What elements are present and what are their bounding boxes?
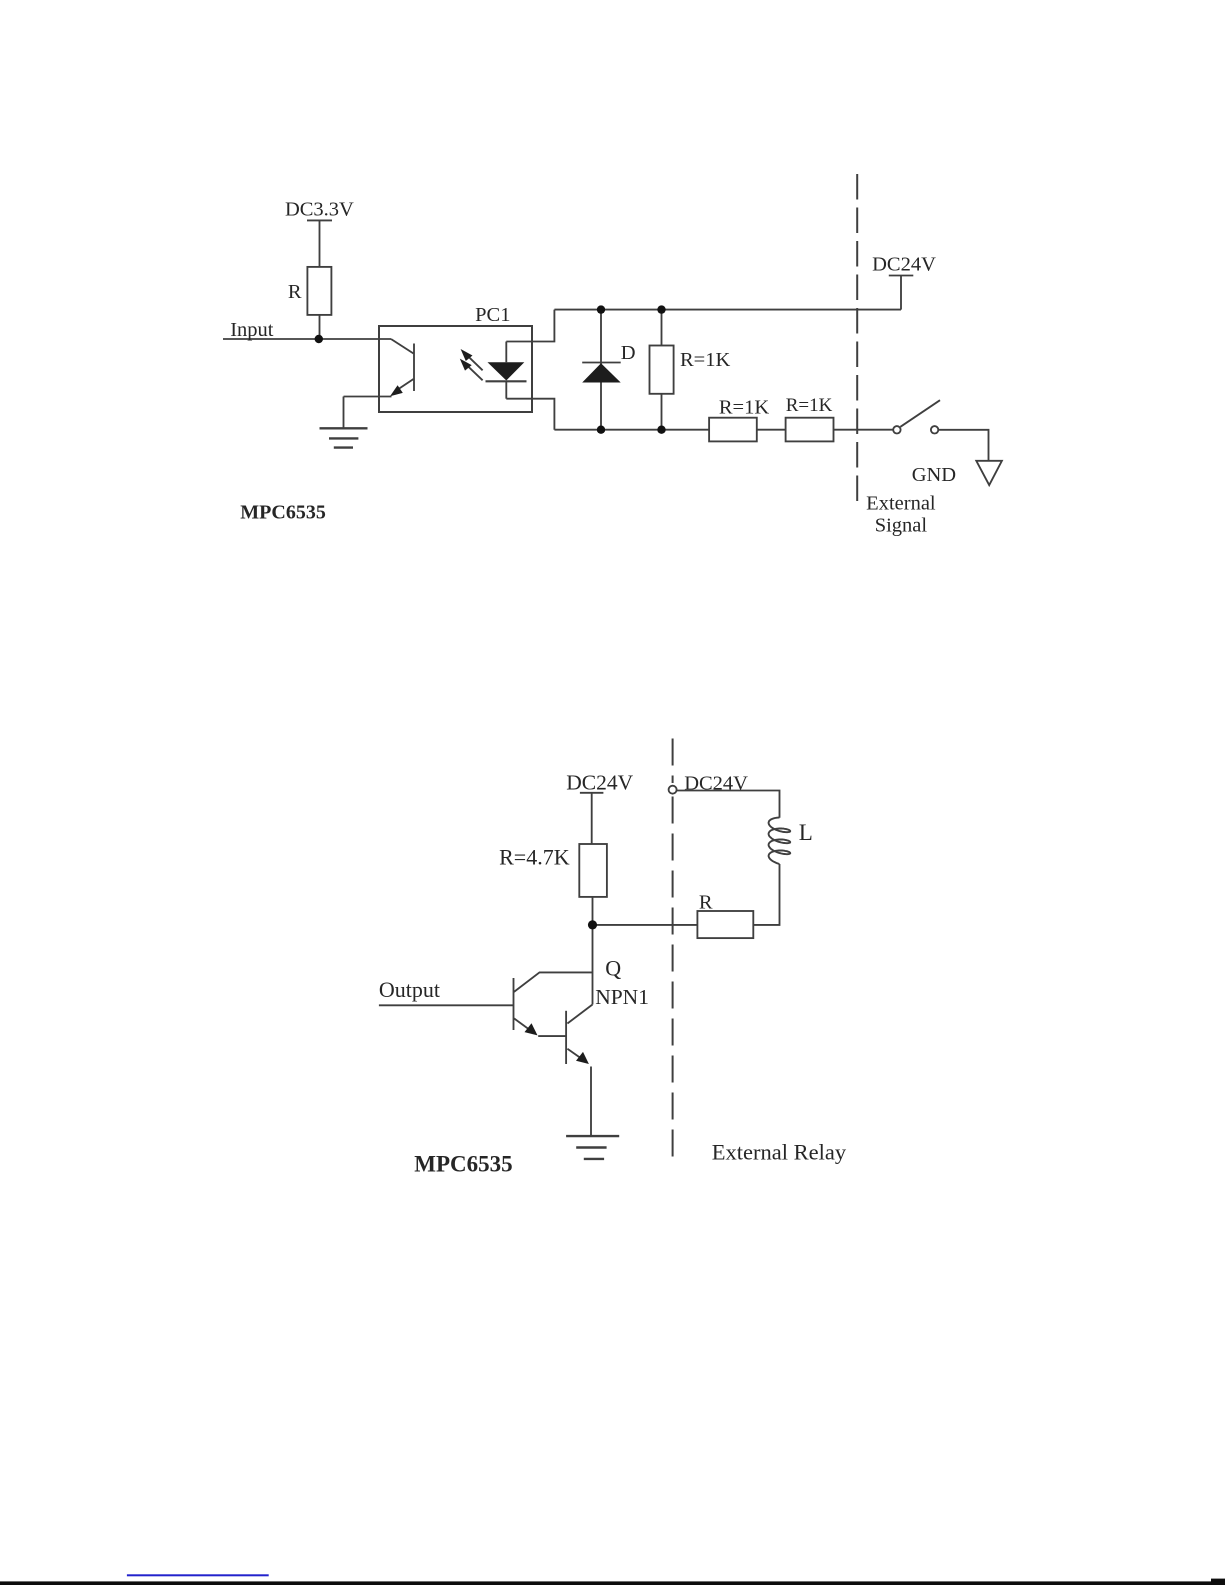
svg-text:R: R <box>288 281 302 303</box>
svg-text:NPN1: NPN1 <box>595 985 649 1009</box>
svg-text:MPC6535: MPC6535 <box>414 1152 512 1177</box>
svg-text:DC24V: DC24V <box>872 253 936 275</box>
svg-text:DC3.3V: DC3.3V <box>285 199 354 221</box>
svg-text:MPC6535: MPC6535 <box>240 501 326 523</box>
svg-text:Q: Q <box>605 956 621 981</box>
svg-text:DC24V: DC24V <box>566 771 633 795</box>
svg-text:PC1: PC1 <box>475 304 510 326</box>
svg-text:R=1K: R=1K <box>719 397 769 419</box>
svg-text:GND: GND <box>912 464 956 486</box>
svg-text:External: External <box>866 492 936 514</box>
svg-text:D: D <box>621 342 636 364</box>
svg-text:External Relay: External Relay <box>712 1140 847 1165</box>
svg-text:R=1K: R=1K <box>680 349 730 371</box>
svg-text:R=1K: R=1K <box>786 395 833 416</box>
svg-text:Signal: Signal <box>875 515 928 537</box>
svg-text:R=4.7K: R=4.7K <box>499 845 570 870</box>
svg-text:Output: Output <box>379 977 440 1002</box>
svg-text:Input: Input <box>230 319 274 341</box>
svg-text:R: R <box>699 892 713 914</box>
svg-text:L: L <box>799 820 813 845</box>
svg-text:DC24V: DC24V <box>684 773 748 795</box>
